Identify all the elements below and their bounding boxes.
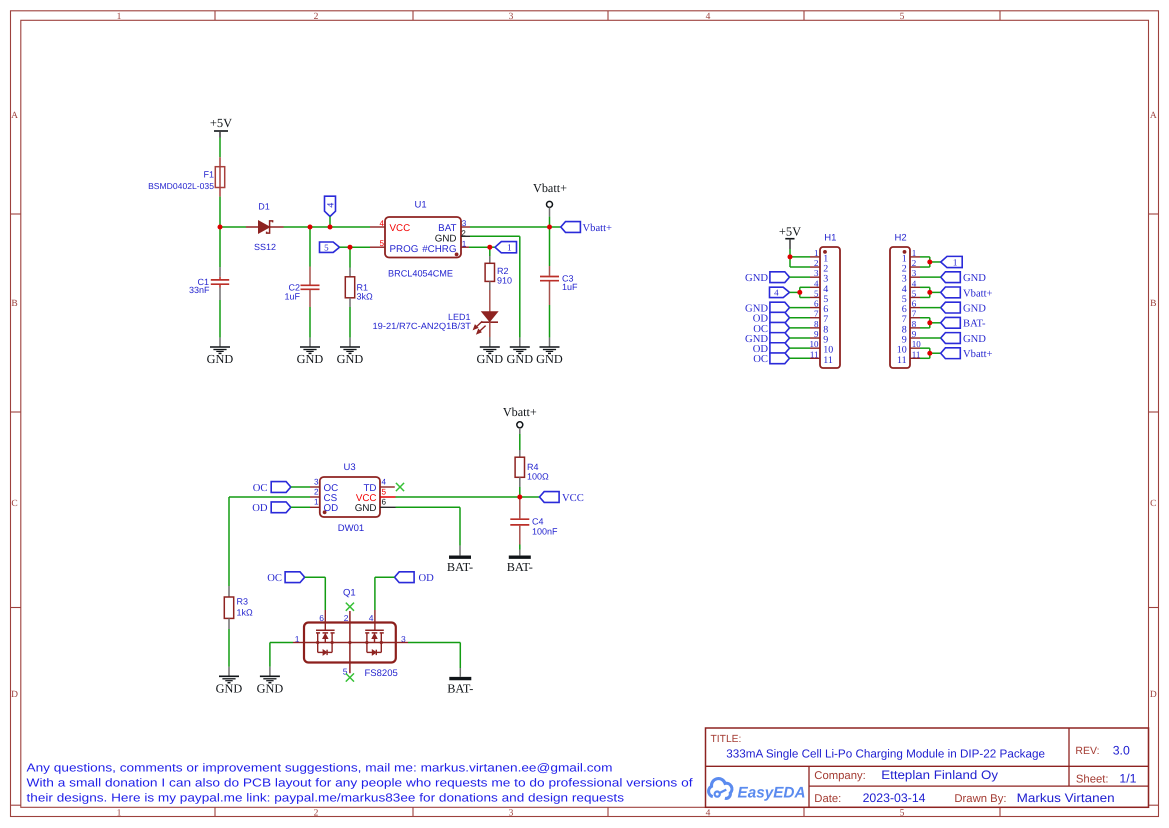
H2 pin 11: [897, 349, 920, 366]
H2 pin 2: [902, 258, 920, 275]
svg-text:R4: R4: [527, 462, 539, 472]
svg-text:333mA Single Cell Li-Po Chargi: 333mA Single Cell Li-Po Charging Module …: [726, 748, 1045, 761]
svg-text:2: 2: [314, 488, 319, 497]
svg-text:2: 2: [314, 12, 319, 22]
wire R2 to LED1: [489, 290, 491, 312]
svg-text:BAT-: BAT-: [507, 560, 533, 574]
net flag BAT- (H2 pins 7-8): [941, 317, 986, 329]
Q1 gate pin 4 stub: [374, 610, 376, 630]
no-connect X (U3 TD): [396, 483, 404, 491]
H2 pin 5: [902, 288, 920, 305]
svg-text:9: 9: [814, 329, 819, 339]
svg-text:+5V: +5V: [210, 116, 232, 130]
svg-text:GND: GND: [207, 352, 234, 366]
junction H2 pins 4-5: [927, 290, 932, 295]
svg-text:BAT-: BAT-: [447, 560, 473, 574]
Q1 gate pin 6 stub: [324, 610, 326, 630]
svg-text:OD: OD: [252, 503, 268, 514]
wire OC to U3 pin 3: [291, 486, 310, 488]
op-amp U3 DW01 (protection IC): [320, 462, 380, 534]
svg-text:Vbatt+: Vbatt+: [963, 288, 993, 299]
svg-text:8: 8: [814, 319, 819, 329]
svg-text:33nF: 33nF: [189, 285, 210, 295]
net port 1 (CHRG): [495, 242, 517, 254]
svg-text:B: B: [11, 299, 17, 309]
wire node VIN down to C1: [219, 227, 221, 267]
net flag OD (H1 pin 7): [753, 312, 790, 324]
svg-text:1uF: 1uF: [562, 282, 578, 292]
svg-text:VCC: VCC: [390, 223, 411, 234]
svg-text:Q1: Q1: [343, 588, 356, 599]
svg-text:3: 3: [509, 12, 514, 22]
svg-text:GND: GND: [506, 352, 533, 366]
net port 4 (H1 pins 4-5): [770, 287, 790, 297]
svg-text:BAT: BAT: [438, 223, 456, 234]
svg-text:Vbatt+: Vbatt+: [583, 223, 613, 234]
svg-text:GND: GND: [257, 682, 284, 696]
wire OD to U3 pin 1: [291, 506, 310, 508]
svg-text:5: 5: [912, 288, 917, 298]
svg-text:6: 6: [814, 299, 819, 309]
svg-text:Etteplan Finland Oy: Etteplan Finland Oy: [881, 768, 999, 782]
power flag +5V (left): [210, 116, 232, 138]
wire D1 cathode to node A: [284, 226, 311, 228]
wire node to D1 anode: [220, 226, 246, 228]
svg-text:1: 1: [953, 258, 958, 268]
power node Vbatt+ (circle, top): [533, 181, 567, 207]
wire +5V to F1: [219, 138, 221, 158]
svg-text:5: 5: [900, 808, 905, 818]
svg-text:2: 2: [344, 613, 349, 623]
svg-text:With a small donation I can al: With a small donation I can also do PCB …: [27, 776, 694, 789]
wire Q1 pin 3 (right): [396, 643, 461, 677]
wire port 4 stub: [329, 217, 331, 228]
connector H2 (DIP-22 right): [890, 233, 910, 369]
net flag OC (H1 pin 11): [753, 353, 789, 365]
resistor R4 100: [515, 457, 549, 481]
junction H2 pins 10-11: [927, 351, 932, 356]
svg-text:GND: GND: [476, 352, 503, 366]
wire OC to H1 pin 8: [790, 327, 811, 329]
no-connect X (Q1 pin 5): [346, 673, 354, 681]
svg-text:2: 2: [814, 258, 819, 268]
wire OC to H1 pin 11: [790, 357, 811, 359]
svg-text:3kΩ: 3kΩ: [357, 291, 374, 301]
svg-text:H1: H1: [824, 233, 836, 244]
svg-text:BAT-: BAT-: [963, 319, 986, 330]
H1 pin 1: [810, 248, 828, 265]
svg-text:U1: U1: [415, 200, 427, 211]
svg-text:1kΩ: 1kΩ: [237, 608, 254, 618]
svg-text:C: C: [11, 499, 17, 509]
power node Vbatt+ (circle, lower): [503, 405, 537, 428]
svg-text:3.0: 3.0: [1113, 743, 1130, 757]
net flag OC (Q1 gate): [267, 572, 304, 584]
H1 pin 2: [810, 258, 828, 275]
ground GND (U1 pin2): [506, 347, 533, 366]
svg-text:H2: H2: [895, 233, 907, 244]
wire node A to node B: [310, 226, 330, 228]
junction node A (C2 tap): [308, 225, 313, 230]
wire H2 pins 7-8 bridge: [920, 318, 941, 328]
svg-text:2: 2: [314, 808, 319, 818]
fuse F1 value BSMD0402L-035: [148, 157, 225, 196]
svg-text:BAT-: BAT-: [447, 681, 473, 695]
H1 pin 7: [810, 309, 828, 326]
svg-text:BRCL4054CME: BRCL4054CME: [388, 269, 453, 279]
svg-text:#CHRG: #CHRG: [422, 244, 456, 255]
Q1 MOSFET A (left): [316, 630, 335, 655]
svg-text:4: 4: [814, 278, 819, 288]
wire C3 to GND: [549, 305, 551, 338]
net flag Vbatt+ (H2 pins 10-11): [941, 348, 993, 360]
wire node VCC down to C4: [519, 497, 521, 518]
junction node B (port 4): [328, 225, 333, 230]
svg-text:5: 5: [379, 239, 384, 248]
no-connect X (Q1 pin 2): [346, 603, 354, 611]
svg-text:7: 7: [912, 309, 917, 319]
svg-text:OC: OC: [253, 483, 268, 494]
net port 4 (down): [325, 196, 337, 216]
H1 pin 11: [810, 349, 833, 366]
junction +5V at H1: [788, 254, 793, 259]
svg-text:their designs. Here is my payp: their designs. Here is my paypal.me link…: [27, 791, 625, 804]
capacitor C3 1uF: [540, 266, 578, 305]
title block Sheet: [1076, 772, 1137, 786]
wire node Vbatt to flag: [550, 226, 561, 228]
wire C2 to GND: [309, 307, 311, 338]
wire R3 to GND: [228, 629, 230, 667]
svg-text:B: B: [1150, 299, 1156, 309]
EasyEDA logo: [709, 779, 806, 802]
diode D1 SS12 (schottky): [246, 202, 284, 252]
svg-text:7: 7: [814, 309, 819, 319]
H1 pin 5: [810, 288, 828, 305]
wire F1 to node VIN: [219, 197, 221, 227]
svg-text:10: 10: [912, 339, 922, 349]
H2 pin 7: [902, 309, 920, 326]
wire R4 to node VCC: [519, 477, 521, 497]
wire LED1 to GND: [489, 322, 491, 337]
U3 pin 6 GND wire to BAT-: [380, 507, 460, 555]
battery node BAT- (C4): [507, 557, 533, 574]
battery node BAT- (U3 GND): [447, 557, 473, 574]
svg-text:11: 11: [823, 355, 833, 366]
svg-text:FS8205: FS8205: [365, 668, 398, 679]
svg-text:F1: F1: [203, 170, 214, 180]
H2 pin 9: [902, 329, 920, 346]
wire C1 to GND: [219, 300, 221, 338]
svg-text:SS12: SS12: [254, 242, 276, 252]
svg-text:1: 1: [814, 248, 819, 258]
svg-text:910: 910: [497, 276, 512, 286]
svg-text:Any questions, comments or imp: Any questions, comments or improvement s…: [27, 762, 613, 775]
wire GND to H2 pin 9: [920, 337, 941, 339]
wire OD to H1 pin 7: [790, 317, 811, 319]
svg-text:11: 11: [810, 349, 819, 359]
wire GND to H1 pin 6: [790, 307, 811, 309]
U3 pin 4 TD stub: [380, 486, 395, 488]
wire H2 pins 1-2 bridge: [920, 257, 941, 267]
svg-text:REV:: REV:: [1075, 745, 1099, 757]
svg-text:GND: GND: [355, 503, 377, 514]
svg-text:Vbatt+: Vbatt+: [503, 405, 537, 419]
junction node CHRG: [487, 245, 492, 250]
wire GND to H1 pin 9: [790, 337, 811, 339]
svg-text:GND: GND: [435, 233, 457, 244]
svg-text:GND: GND: [297, 352, 324, 366]
svg-text:D: D: [11, 690, 18, 700]
connector H1 (DIP-22 left): [820, 233, 840, 369]
wire C4 to BAT-: [519, 545, 521, 556]
junction node VIN: [218, 225, 223, 230]
junction node VCC: [517, 495, 522, 500]
wire H2 pins 4-5 bridge: [920, 287, 941, 297]
net flag OD (U3 pin 1): [252, 502, 291, 514]
junction node C (R1 tap): [348, 245, 353, 250]
wire node CHRG down to R2: [489, 247, 491, 256]
Q1 pin 2/5 vertical: [349, 611, 351, 673]
svg-text:6: 6: [382, 498, 387, 507]
H1 pin 6: [810, 299, 828, 316]
svg-text:11: 11: [912, 349, 921, 359]
svg-text:GND: GND: [216, 682, 243, 696]
U1 pin 1 #CHRG wire: [461, 246, 469, 248]
title block REV: [1075, 743, 1130, 757]
svg-text:R3: R3: [237, 597, 249, 607]
svg-text:Date:: Date:: [814, 793, 841, 805]
svg-text:4: 4: [912, 278, 917, 288]
wire Vbatt+ to R4: [519, 428, 521, 458]
title block TITLE row: [711, 734, 1046, 761]
svg-text:3: 3: [814, 268, 819, 278]
svg-text:5: 5: [814, 288, 819, 298]
op-amp U1 BRCL4054CME (charger IC): [385, 200, 461, 279]
wire OD to Q1 pin 4: [375, 577, 395, 610]
svg-text:5: 5: [324, 242, 329, 252]
title block Company row: [814, 768, 999, 782]
wire GND to H1 pin 3: [790, 276, 811, 278]
svg-text:EasyEDA: EasyEDA: [738, 785, 806, 802]
svg-text:5: 5: [382, 488, 387, 497]
svg-text:Drawn By:: Drawn By:: [954, 793, 1006, 805]
Q1 internal rail: [304, 642, 396, 644]
capacitor C1 33nF: [189, 267, 229, 300]
wire +5V to H1 pins 1-2: [790, 249, 810, 267]
svg-text:11: 11: [897, 355, 907, 366]
wire OC to Q1 pin 6: [305, 577, 326, 610]
net flag GND (H2 pin 3): [941, 272, 987, 284]
resistor R2 910: [485, 256, 512, 290]
svg-text:TITLE:: TITLE:: [711, 734, 742, 745]
net port 5 (right): [320, 242, 340, 252]
net flag GND (H1 pin 3): [745, 272, 789, 284]
title block: [706, 728, 1149, 807]
junction port 4 at H1: [797, 290, 802, 295]
svg-text:1: 1: [912, 248, 917, 258]
resistor R3 1k: [224, 586, 253, 629]
svg-text:+5V: +5V: [779, 225, 801, 239]
svg-text:19-21/R7C-AN2Q1B/3T: 19-21/R7C-AN2Q1B/3T: [373, 321, 472, 331]
junction H2 pins 1-2: [927, 259, 932, 264]
svg-text:OC: OC: [267, 573, 282, 584]
ground GND (Q1 source): [257, 676, 284, 695]
svg-text:VCC: VCC: [562, 493, 584, 504]
svg-text:1: 1: [117, 12, 122, 22]
svg-text:1/1: 1/1: [1119, 772, 1136, 786]
capacitor C4 100nF: [510, 517, 558, 545]
H2 pin 3: [902, 268, 920, 285]
svg-text:4: 4: [369, 613, 374, 623]
U1 pin 3 BAT wire to node Vbatt: [461, 226, 470, 228]
H2 pin 6: [902, 299, 920, 316]
net flag GND (H2 pin 9): [941, 333, 987, 345]
net flag GND (H2 pin 6): [941, 302, 987, 314]
wire CS net (R3 to U3 pin 2): [229, 496, 310, 498]
H2 pin 8: [902, 319, 920, 336]
battery node BAT- (Q1): [447, 679, 473, 696]
svg-text:BSMD0402L-035: BSMD0402L-035: [148, 181, 214, 191]
svg-text:U3: U3: [344, 462, 356, 473]
H1 pin 9: [810, 329, 828, 346]
wire node Vbatt down to C3: [549, 227, 551, 266]
svg-text:A: A: [11, 111, 18, 121]
wire port 4 to H1 pins 4-5: [790, 287, 811, 297]
wire H2 pins 10-11 bridge: [920, 348, 941, 358]
svg-text:4: 4: [382, 478, 387, 487]
svg-text:9: 9: [912, 329, 917, 339]
svg-text:GND: GND: [963, 334, 986, 345]
H2 pin 4: [902, 278, 920, 295]
wire OD to H1 pin 10: [790, 347, 811, 349]
svg-text:R2: R2: [497, 266, 509, 276]
net flag OC (H1 pin 8): [753, 322, 789, 334]
svg-text:10: 10: [810, 339, 820, 349]
wire node C down to R1: [349, 247, 351, 267]
H2 pin 10: [897, 339, 922, 356]
transistor Q1 FS8205: [304, 588, 398, 680]
svg-text:Vbatt+: Vbatt+: [963, 349, 993, 360]
svg-text:100Ω: 100Ω: [527, 472, 549, 482]
net flag OD (Q1 gate): [395, 572, 435, 584]
net flag OC (U3 pin 3): [253, 482, 291, 494]
svg-text:1: 1: [117, 808, 122, 818]
svg-text:D: D: [1150, 690, 1157, 700]
svg-text:OD: OD: [419, 573, 435, 584]
title block Date row: [814, 791, 1115, 805]
svg-text:DW01: DW01: [338, 523, 364, 534]
wire node CHRG to port 1: [490, 246, 495, 248]
svg-text:PROG: PROG: [390, 244, 419, 255]
svg-text:100nF: 100nF: [532, 527, 558, 537]
svg-text:D1: D1: [258, 202, 270, 212]
svg-text:3: 3: [314, 478, 319, 487]
svg-text:Sheet:: Sheet:: [1076, 774, 1109, 786]
net flag GND (H1 pin 9): [745, 333, 789, 345]
net flag VCC: [540, 492, 584, 504]
net flag Vbatt+ (right of U1): [561, 222, 612, 234]
svg-text:6: 6: [912, 299, 917, 309]
U3 pin 5 VCC wire to node VCC: [380, 496, 396, 498]
svg-text:C4: C4: [532, 517, 544, 527]
capacitor C2 1uF: [284, 267, 319, 308]
svg-text:1: 1: [314, 498, 319, 507]
svg-text:4: 4: [706, 808, 711, 818]
net flag OD (H1 pin 10): [753, 343, 790, 355]
junction H2 pins 7-8: [927, 320, 932, 325]
H1 pin 4: [810, 278, 828, 295]
ground GND (C3): [536, 347, 563, 366]
svg-text:GND: GND: [745, 273, 768, 284]
wire port 5 to node C: [340, 246, 351, 248]
wire Q1 pin 1 (left): [270, 643, 304, 677]
note text (donation): [27, 762, 694, 805]
net port 1 (H2 pins 1-2): [941, 256, 963, 268]
svg-text:Company:: Company:: [814, 770, 866, 782]
ground GND (C2): [297, 347, 324, 366]
svg-text:C: C: [1150, 499, 1156, 509]
svg-text:8: 8: [912, 319, 917, 329]
LED LED1 19-21/R7C-AN2Q1B/3T: [373, 312, 499, 334]
svg-text:GND: GND: [963, 304, 986, 315]
svg-text:Markus Virtanen: Markus Virtanen: [1017, 791, 1115, 805]
svg-text:3: 3: [912, 268, 917, 278]
wire Vbatt+ circle to node: [549, 207, 551, 216]
junction node Vbatt+: [547, 225, 552, 230]
ground GND (C1): [207, 347, 234, 366]
svg-text:4: 4: [774, 288, 779, 298]
wire node B to U1 VCC pin 4: [330, 226, 370, 228]
svg-text:3: 3: [509, 808, 514, 818]
svg-text:GND: GND: [337, 352, 364, 366]
svg-text:4: 4: [706, 12, 711, 22]
wire GND to H2 pin 3: [920, 276, 941, 278]
H1 pin 10: [810, 339, 834, 356]
ground GND (R3): [216, 676, 243, 695]
U1 pin 2 GND wire: [461, 235, 470, 237]
net flag GND (H1 pin 6): [745, 302, 789, 314]
wire GND to H2 pin 6: [920, 307, 941, 309]
Q1 rail junction (pin2): [348, 641, 351, 644]
svg-text:4: 4: [379, 219, 384, 228]
power flag +5V (H1): [779, 225, 801, 250]
svg-text:GND: GND: [536, 352, 563, 366]
resistor R1 3k: [345, 268, 373, 308]
svg-text:1uF: 1uF: [284, 291, 300, 301]
wire node C to U1 PROG pin 5: [350, 246, 370, 248]
wire node VCC to flag: [520, 496, 540, 498]
wire R1 to GND: [349, 307, 351, 338]
Q1 MOSFET B (right): [365, 630, 384, 655]
H1 pin 3: [810, 268, 828, 285]
svg-text:2: 2: [912, 258, 917, 268]
net flag Vbatt+ (H2 pins 4-5): [941, 287, 993, 299]
ground GND (LED1): [476, 347, 503, 366]
svg-text:4: 4: [326, 203, 337, 208]
svg-text:1: 1: [507, 244, 512, 254]
svg-text:5: 5: [900, 12, 905, 22]
svg-text:2023-03-14: 2023-03-14: [863, 791, 926, 805]
svg-text:A: A: [1150, 111, 1157, 121]
svg-text:6: 6: [319, 613, 324, 623]
H1 pin 8: [810, 319, 828, 336]
svg-text:OD: OD: [324, 503, 339, 514]
svg-text:GND: GND: [963, 273, 986, 284]
wire node A down to C2: [309, 227, 311, 267]
svg-text:Vbatt+: Vbatt+: [533, 181, 567, 195]
ground GND (R1): [337, 347, 364, 366]
H2 pin 1: [902, 248, 920, 265]
